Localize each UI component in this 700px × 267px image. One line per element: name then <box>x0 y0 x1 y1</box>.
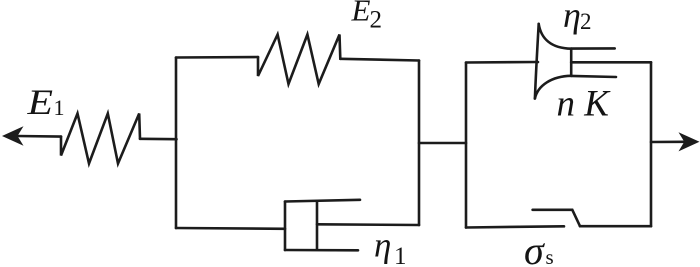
wire: top branch lead <box>176 56 258 59</box>
svg-text:s: s <box>546 245 554 267</box>
svg-text:η: η <box>563 0 581 35</box>
wire: middle block left vertical <box>175 58 178 229</box>
svg-text:η: η <box>374 226 391 265</box>
dashpot eta1 rod wire <box>317 223 419 226</box>
friction slider sigma_s <box>533 210 580 226</box>
dashpot eta1 cylinder <box>285 200 360 251</box>
horn damper rod wire <box>571 61 651 64</box>
svg-text:2: 2 <box>370 7 383 34</box>
horn damper upper plate <box>571 47 615 50</box>
spring E1 <box>61 114 140 164</box>
wire E1 to node A <box>140 138 177 141</box>
svg-text:1: 1 <box>54 95 65 120</box>
label E1 <box>26 82 64 122</box>
svg-text:σ: σ <box>524 228 545 267</box>
svg-text:n K: n K <box>557 83 612 124</box>
label sigma_s <box>524 228 554 267</box>
label eta1 <box>374 226 407 267</box>
wire: middle block right vertical <box>418 61 421 226</box>
dashpot eta1 piston <box>316 202 319 249</box>
wire: bottom branch right of slider <box>580 225 651 228</box>
wire: right block left vertical <box>465 63 468 228</box>
wire: bottom branch left of slider <box>466 226 564 227</box>
spring E2 <box>258 35 340 85</box>
wire: E2 to right vertical <box>340 59 419 61</box>
right load arrow <box>651 132 700 151</box>
horn damper eta2 / nK bell <box>535 24 571 99</box>
label n K <box>557 83 612 124</box>
label eta2 <box>563 0 592 35</box>
wire: node B between blocks <box>419 142 466 145</box>
wire: bottom branch lead <box>176 227 285 230</box>
wire: right block right vertical <box>650 62 653 226</box>
wire: horn lead <box>466 61 538 64</box>
svg-text:2: 2 <box>580 9 592 34</box>
svg-text:1: 1 <box>394 243 407 267</box>
left load arrow <box>2 126 61 146</box>
svg-text:E: E <box>26 82 53 122</box>
label E2 <box>351 0 383 34</box>
horn damper lower plate <box>571 76 616 77</box>
svg-text:E: E <box>351 0 371 27</box>
